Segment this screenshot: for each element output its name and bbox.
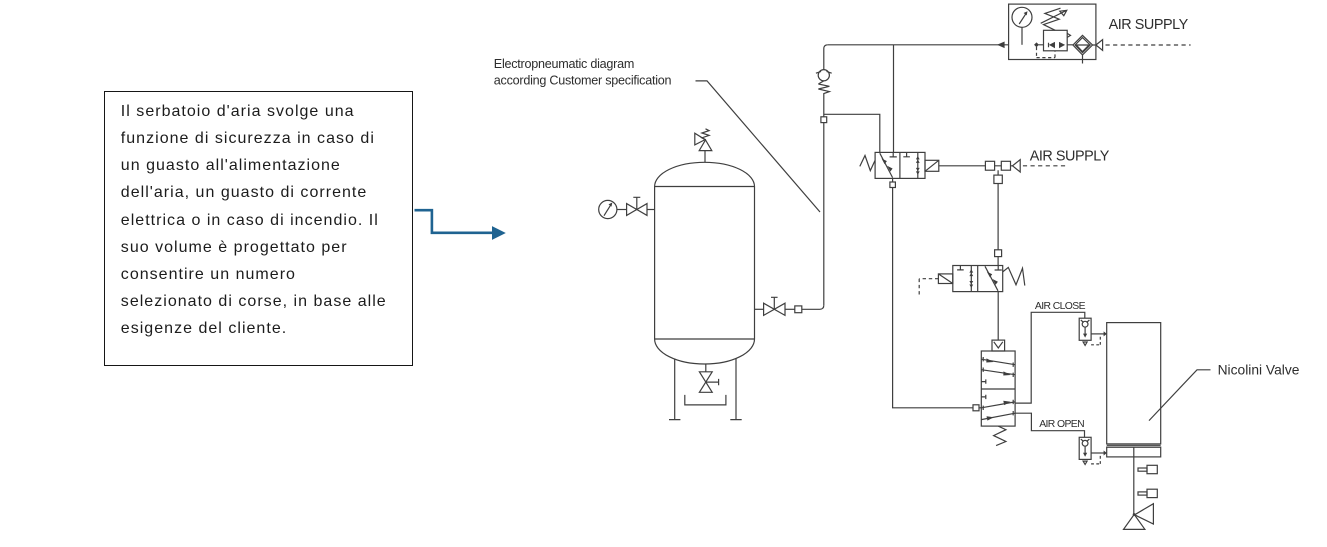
tank T1 body	[655, 162, 755, 364]
wire S5 to valve V4	[979, 407, 981, 409]
air supply dashed lead top	[1106, 44, 1191, 46]
limit switch plug 1	[1138, 465, 1157, 473]
gauge isolation valve	[627, 197, 647, 215]
valve V1 right position blocked paths	[903, 152, 919, 178]
svg-text:Nicolini Valve: Nicolini Valve	[1218, 363, 1300, 378]
flow control F1 AIR CLOSE	[1079, 318, 1091, 345]
port fitting square SC	[994, 175, 1002, 183]
wire V2 bottom port to valve V4 pilot	[997, 292, 999, 340]
svg-text:AIR SUPPLY: AIR SUPPLY	[1109, 17, 1189, 33]
valve V2 return spring	[1003, 267, 1025, 285]
valve V1 left position flow path	[880, 152, 897, 177]
FRL filter separator	[1073, 35, 1093, 63]
wire gauge valve to tank	[647, 209, 655, 211]
actuator cylinder body	[1107, 323, 1161, 457]
svg-text:AIR OPEN: AIR OPEN	[1039, 419, 1084, 430]
FRL regulator spring and setting arrow	[1041, 8, 1067, 30]
FRL line junction node	[1035, 43, 1038, 46]
valve V4 air pilot cap	[992, 340, 1005, 351]
leader line Nicolini Valve	[1149, 370, 1211, 421]
wire outlet to riser	[802, 305, 824, 309]
valve V1 3/2 solenoid body	[875, 152, 925, 178]
check valve on riser	[816, 70, 832, 96]
port fitting square S2 on riser	[821, 117, 827, 123]
port fitting square SA	[985, 161, 994, 170]
blue callout arrow	[415, 210, 506, 240]
wire between fittings	[995, 165, 1013, 167]
wire V1 solenoid to supply junction	[939, 165, 986, 167]
flow arrow on top manifold	[997, 42, 1005, 49]
leader line Electropneumatic note	[696, 81, 821, 212]
valve V1 return spring	[860, 156, 875, 171]
valve V4 lower position paths	[981, 395, 1015, 421]
valve V2 solenoid	[938, 274, 952, 284]
valve V4 upper position paths	[981, 357, 1015, 384]
bottom angle valve	[1124, 504, 1154, 530]
svg-text:AIR CLOSE: AIR CLOSE	[1035, 301, 1086, 312]
note text box	[104, 91, 414, 366]
F1 outlet to actuator	[1091, 331, 1107, 344]
safety relief valve on tank top	[695, 129, 712, 163]
limit switch plug 2	[1138, 489, 1157, 497]
wire AIR CLOSE run	[1015, 312, 1085, 403]
wire V1 exhaust down to valve V4	[893, 188, 973, 408]
wire riser upper segment to top manifold	[824, 45, 828, 70]
svg-text:according Customer specificati: according Customer specification	[494, 73, 672, 87]
svg-text:Electropneumatic diagram: Electropneumatic diagram	[494, 57, 634, 71]
FRL pressure gauge	[1012, 7, 1032, 45]
drain funnel bracket	[685, 395, 726, 405]
air service unit FRL enclosure	[1009, 4, 1096, 59]
svg-text:AIR SUPPLY: AIR SUPPLY	[1030, 149, 1110, 165]
wire AIR OPEN run	[1015, 413, 1084, 437]
valve V1 exhaust port square S3	[890, 178, 896, 187]
tank drain valve	[699, 364, 718, 392]
air supply cone 2	[1013, 160, 1021, 172]
valve V1 solenoid	[925, 160, 939, 171]
tank outlet valve	[755, 297, 795, 315]
valve V2 left position blocked paths	[957, 266, 973, 292]
tank legs	[669, 358, 742, 420]
pressure gauge PI on tank	[599, 200, 627, 218]
valve V4 inlet port square S5	[973, 405, 979, 411]
port fitting square SB	[1001, 161, 1010, 170]
valve V4 main body	[981, 351, 1015, 426]
valve V2 3/2 solenoid body	[953, 266, 1003, 292]
air supply dashed lead 2	[1023, 165, 1067, 167]
valve V2 right position flow path	[985, 266, 1002, 291]
flow control F2 AIR OPEN	[1079, 437, 1091, 464]
wire top manifold horizontal	[828, 44, 1009, 46]
valve stem	[1133, 457, 1135, 515]
valve V4 return spring	[994, 426, 1006, 446]
valve V2 pilot dashed line	[919, 279, 938, 295]
wire riser lower segment	[823, 96, 825, 306]
port fitting square SD	[995, 250, 1002, 257]
wire top manifold to valve V1 port 2	[893, 45, 895, 153]
wire branch riser to valve V1 port 1	[824, 114, 880, 152]
FRL inlet cone	[1096, 40, 1103, 51]
F2 outlet to actuator	[1091, 451, 1107, 464]
FRL regulator body	[1044, 30, 1071, 51]
wire junction down to valve V2	[997, 170, 999, 265]
wire FRL segments	[1039, 44, 1096, 46]
FRL regulator pilot dashed	[1037, 47, 1056, 58]
port fitting square S1	[795, 306, 802, 313]
